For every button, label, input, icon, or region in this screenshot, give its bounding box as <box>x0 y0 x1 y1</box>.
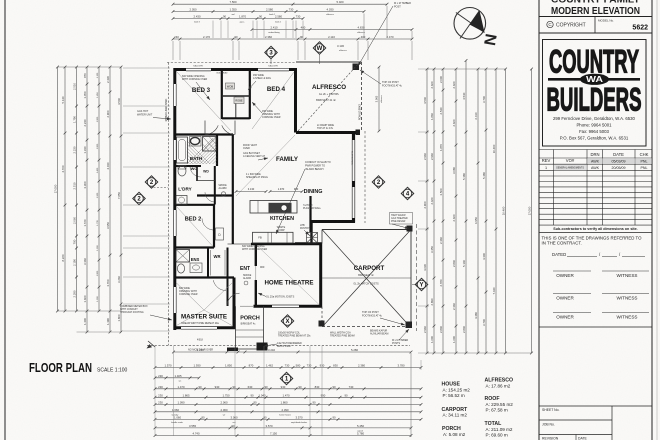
copyright cell <box>594 17 596 34</box>
porch step lines <box>236 329 264 331</box>
kitchen south wall <box>251 243 322 245</box>
marker leader dashes <box>150 187 168 189</box>
wall ent west upper <box>227 248 229 307</box>
dimension line <box>155 388 421 390</box>
ent door arc from porch <box>227 293 240 306</box>
in-plan dims family <box>236 191 266 193</box>
left block connectors <box>58 66 122 68</box>
wall master north <box>174 276 235 278</box>
dimension line <box>426 69 428 353</box>
dimension line <box>155 418 421 420</box>
dimension line <box>477 69 479 353</box>
eave corner arrow <box>148 341 155 347</box>
wall bed2 south <box>174 246 215 248</box>
dimension line <box>86 67 88 332</box>
exterior wall left <box>173 68 176 330</box>
bath basin <box>190 137 199 144</box>
hob hatched dark <box>269 203 292 213</box>
wc door arc <box>190 167 201 177</box>
bath floor hatch <box>187 138 213 164</box>
dimension line <box>465 61 467 354</box>
dimension line <box>155 427 411 429</box>
owner/witness row 3 <box>553 312 591 314</box>
logo WA ellipse <box>548 78 640 81</box>
wall wir east <box>227 248 229 278</box>
roof overhang dashed outline <box>167 62 296 64</box>
dimension line <box>120 67 122 332</box>
ldry door arc <box>205 192 214 202</box>
wall theatre south <box>254 305 323 308</box>
dimension line <box>174 351 412 353</box>
marker 2 <box>372 176 385 189</box>
kitchen bench lower row <box>253 232 294 243</box>
dimension line <box>173 3 387 5</box>
exterior wall top <box>174 68 298 71</box>
kitchen bench top row <box>250 201 297 214</box>
sheet border <box>4 0 6 440</box>
hall cupboard <box>216 228 224 240</box>
robe small boxes <box>226 83 235 89</box>
wall ens/wir divider <box>207 248 209 278</box>
dimension line <box>505 69 507 353</box>
bath shower hatched <box>203 137 217 152</box>
wall bath east inner <box>216 135 218 167</box>
wall theatre east <box>319 244 322 307</box>
wall ldry south (bed2 north) <box>174 204 216 206</box>
wall wc north <box>174 165 202 167</box>
dimension line <box>155 411 421 413</box>
sheet/job boxes <box>539 405 652 407</box>
ens vanity <box>190 263 202 273</box>
marker W <box>313 42 326 55</box>
alfresco corner post <box>353 64 360 71</box>
logo box Country Builders <box>543 40 647 147</box>
alfresco top edge <box>296 61 362 63</box>
porch pier <box>257 343 268 351</box>
owner/witness row 2 <box>553 293 591 295</box>
wall family/dining east <box>352 133 355 223</box>
dimension line <box>64 67 66 311</box>
porch outline <box>235 306 237 349</box>
dimension line <box>155 367 421 369</box>
alfresco roof diagonal <box>298 64 358 131</box>
dimension line <box>531 69 533 353</box>
roofline dash right of dining <box>364 131 366 223</box>
window bed4 <box>258 68 289 71</box>
wall dining south <box>312 220 356 223</box>
contract box <box>539 232 652 234</box>
dimension line <box>155 404 421 406</box>
dimension line <box>252 29 412 31</box>
dimension line <box>98 67 100 311</box>
note pine revar <box>390 213 413 225</box>
dimension line <box>495 69 497 353</box>
robe bottom wall <box>222 117 250 119</box>
dimension line <box>173 11 364 13</box>
marker 4 <box>401 187 414 200</box>
dimension line <box>155 435 411 437</box>
dimension line <box>155 396 421 398</box>
kitchen west wall (hall) <box>232 196 234 244</box>
bath tub <box>177 137 188 163</box>
marker 3 <box>265 46 278 59</box>
hall-corridor door arcs <box>205 125 218 134</box>
wall master south <box>174 326 236 329</box>
paper edge shadow <box>656 0 658 440</box>
dimension line <box>173 38 412 40</box>
dimension line <box>76 67 78 311</box>
dimension line <box>173 18 303 20</box>
window bed3 <box>186 68 211 71</box>
ens shower hatched <box>176 250 190 263</box>
marker 2 <box>145 176 158 189</box>
wc toilet <box>178 166 186 176</box>
ens toilet <box>177 264 184 273</box>
wall bed2 east <box>213 205 215 248</box>
wall wd/ldry <box>214 166 216 205</box>
marker 2 <box>133 192 146 205</box>
wall robe left <box>221 68 223 119</box>
kitchen east wall <box>309 196 311 232</box>
ceiling diagonals <box>177 72 232 132</box>
marker 1 <box>280 372 293 385</box>
owner/witness row 1 <box>553 270 591 272</box>
dimension line <box>109 67 111 332</box>
top extension lines <box>172 41 174 60</box>
wall bath east (hall) <box>232 135 234 197</box>
wall robe right <box>249 68 251 119</box>
ldry trough <box>176 196 187 205</box>
revision table <box>539 150 652 226</box>
carport diagonals <box>322 230 410 327</box>
alfresco right dashed edge <box>361 62 363 132</box>
wall master east / porch <box>233 278 236 330</box>
dimension line <box>155 377 199 379</box>
theatre entry bracket <box>255 244 257 267</box>
dimension line <box>433 69 435 353</box>
carport posts <box>407 226 413 232</box>
dimension line <box>485 69 487 353</box>
wall family north (alfresco south) <box>296 131 359 134</box>
bed2 door arc <box>202 218 213 230</box>
master door arc <box>213 280 226 290</box>
wall theatre north <box>295 242 322 244</box>
wir shelves <box>210 250 212 276</box>
north arrow <box>454 7 486 39</box>
right extension lines <box>418 68 429 70</box>
dimension line <box>442 69 444 353</box>
left extension lines <box>123 67 170 69</box>
title block frame <box>539 0 652 440</box>
scan noise overlay <box>0 0 1 1</box>
dimension line <box>57 67 59 311</box>
pantry hatched <box>307 233 318 244</box>
robe shelf mid <box>222 95 250 97</box>
marker Y <box>415 278 428 291</box>
hall south wall (bath north) <box>174 133 234 135</box>
bottom extension lines <box>154 346 156 436</box>
alfresco inner dim <box>378 67 380 131</box>
alfresco end pillar <box>356 130 361 136</box>
marker X <box>281 315 294 328</box>
dimension line <box>455 69 457 353</box>
wall pantry west <box>310 222 312 244</box>
carport left edge <box>321 230 323 244</box>
carport roof dash right <box>416 224 418 331</box>
wall bed4 east / alfresco <box>294 68 297 133</box>
carport outline <box>322 229 411 231</box>
